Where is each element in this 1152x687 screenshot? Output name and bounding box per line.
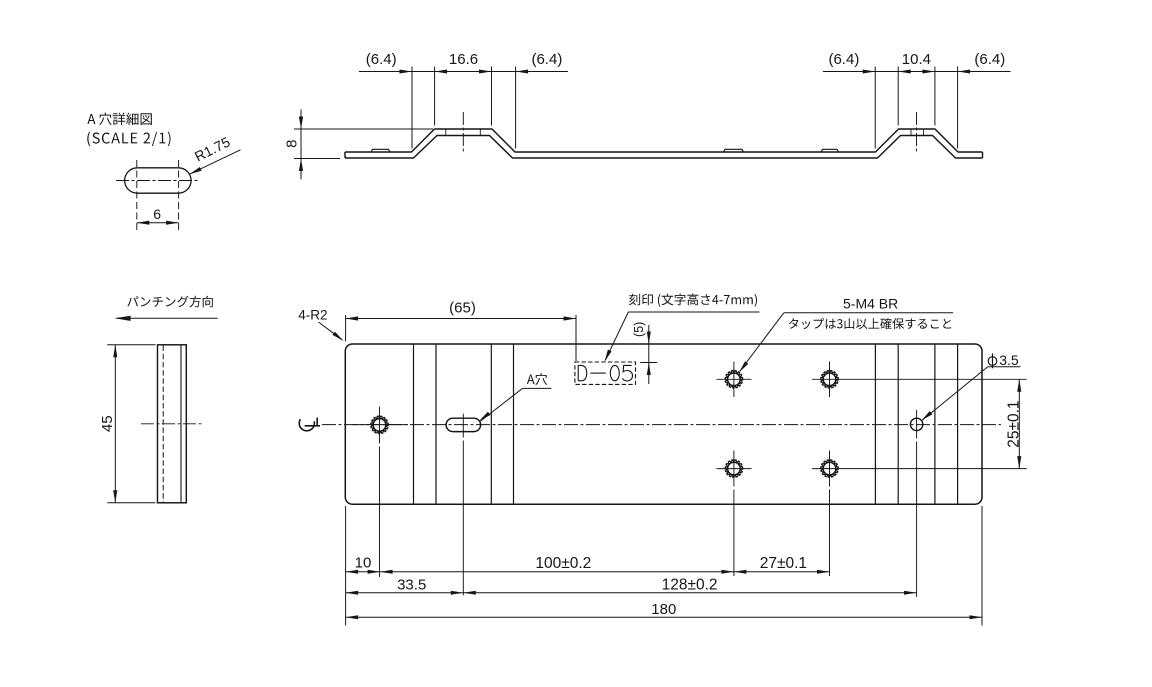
svg-text:(5): (5) — [632, 322, 646, 337]
profile outer surface — [345, 129, 983, 152]
punching direction arrow — [117, 317, 218, 319]
dim 8 vertical line — [300, 110, 302, 180]
detail dim 6 line — [137, 222, 179, 224]
H3 centerlines + 25dim ext — [812, 378, 1027, 380]
svg-text:33.5: 33.5 — [397, 576, 426, 593]
detail view title — [87, 113, 152, 126]
detail slot vertical centerline left — [136, 160, 138, 230]
CL symbol — [299, 416, 314, 431]
burring tab 2 — [724, 149, 744, 152]
side view inner thickness line — [180, 345, 182, 503]
label tap note — [789, 318, 951, 329]
burring tab 3 — [821, 149, 839, 152]
M4 tapped hole H2 top-left — [728, 373, 741, 386]
burring tab 1 — [371, 149, 390, 152]
profile hump centerlines — [462, 112, 464, 154]
svg-text:(6.4): (6.4) — [366, 51, 397, 68]
svg-text:10.4: 10.4 — [902, 51, 931, 68]
svg-text:(65): (65) — [449, 299, 476, 316]
top dim line left hump — [359, 71, 568, 73]
svg-text:180: 180 — [651, 601, 676, 618]
dim 25±0.1 — [1018, 379, 1020, 468]
bottom dim row 2 — [346, 592, 917, 594]
H2 centerlines — [717, 378, 752, 380]
svg-text:100±0.2: 100±0.2 — [535, 555, 591, 572]
svg-text:(6.4): (6.4) — [531, 51, 562, 68]
M4 tapped hole H1 left — [373, 419, 386, 432]
R1.75 leader and arrow — [189, 150, 240, 174]
svg-text:5-M4 BR: 5-M4 BR — [843, 295, 898, 311]
slot vertical centerline — [462, 414, 464, 438]
M4 tapped hole H5 bottom-right — [823, 462, 836, 475]
label A hole — [527, 373, 547, 385]
svg-text:4-R2: 4-R2 — [298, 308, 327, 323]
ext lines left hump — [411, 67, 413, 149]
svg-text:(6.4): (6.4) — [974, 51, 1005, 68]
label phi3.5 — [988, 357, 997, 366]
D-05 stamp glyphs — [578, 365, 632, 381]
H5 centerlines + 25dim ext — [812, 468, 1027, 470]
H4 centerlines — [717, 468, 752, 470]
svg-text:128±0.2: 128±0.2 — [662, 576, 718, 593]
svg-text:25±0.1: 25±0.1 — [1005, 400, 1022, 447]
svg-text:6: 6 — [153, 206, 161, 222]
dim (65) — [346, 318, 576, 320]
svg-text:45: 45 — [99, 415, 116, 432]
dim (5) — [648, 325, 650, 384]
slot A hole — [446, 418, 481, 431]
svg-text:16.6: 16.6 — [449, 51, 478, 68]
label kokuin (stamp) — [629, 294, 757, 307]
main plate outline — [345, 344, 982, 504]
hat stamp ticks — [445, 129, 447, 136]
phi3.5 vertical centerline — [916, 410, 918, 439]
side view rectangle — [158, 345, 187, 503]
detail slot vertical centerline right — [178, 160, 180, 230]
side view hidden line — [162, 346, 164, 503]
profile end caps — [344, 152, 346, 158]
main centerline — [322, 424, 1001, 426]
svg-text:3.5: 3.5 — [999, 352, 1019, 368]
hole phi3.5 — [910, 418, 922, 430]
detail slot outline — [125, 168, 191, 193]
svg-text:8: 8 — [284, 140, 301, 148]
bottom ext lines — [345, 506, 347, 626]
top dim line right hump — [823, 71, 1011, 73]
svg-text:(6.4): (6.4) — [828, 51, 859, 68]
M4 tapped hole H4 bottom-left — [728, 462, 741, 475]
dim 45 — [114, 345, 116, 503]
profile inner surface — [345, 136, 983, 159]
bottom dim row 3 — [346, 616, 982, 618]
dim 8 ext bottom — [294, 158, 340, 160]
M4 tapped hole H3 top-right — [823, 373, 836, 386]
H1 horizontal centerline — [352, 424, 408, 426]
bend lines — [413, 344, 415, 504]
svg-text:27±0.1: 27±0.1 — [760, 555, 807, 572]
punching direction label — [127, 296, 213, 308]
H1 vertical centerline — [379, 407, 381, 444]
bottom dim row 1 — [346, 571, 830, 573]
dim 8 ext top (hat top level) — [294, 128, 433, 130]
detail slot horizontal centerline — [116, 180, 200, 182]
side view centerline — [141, 423, 202, 425]
D-05 stamp dashed box — [575, 362, 636, 384]
svg-text:10: 10 — [355, 555, 372, 572]
